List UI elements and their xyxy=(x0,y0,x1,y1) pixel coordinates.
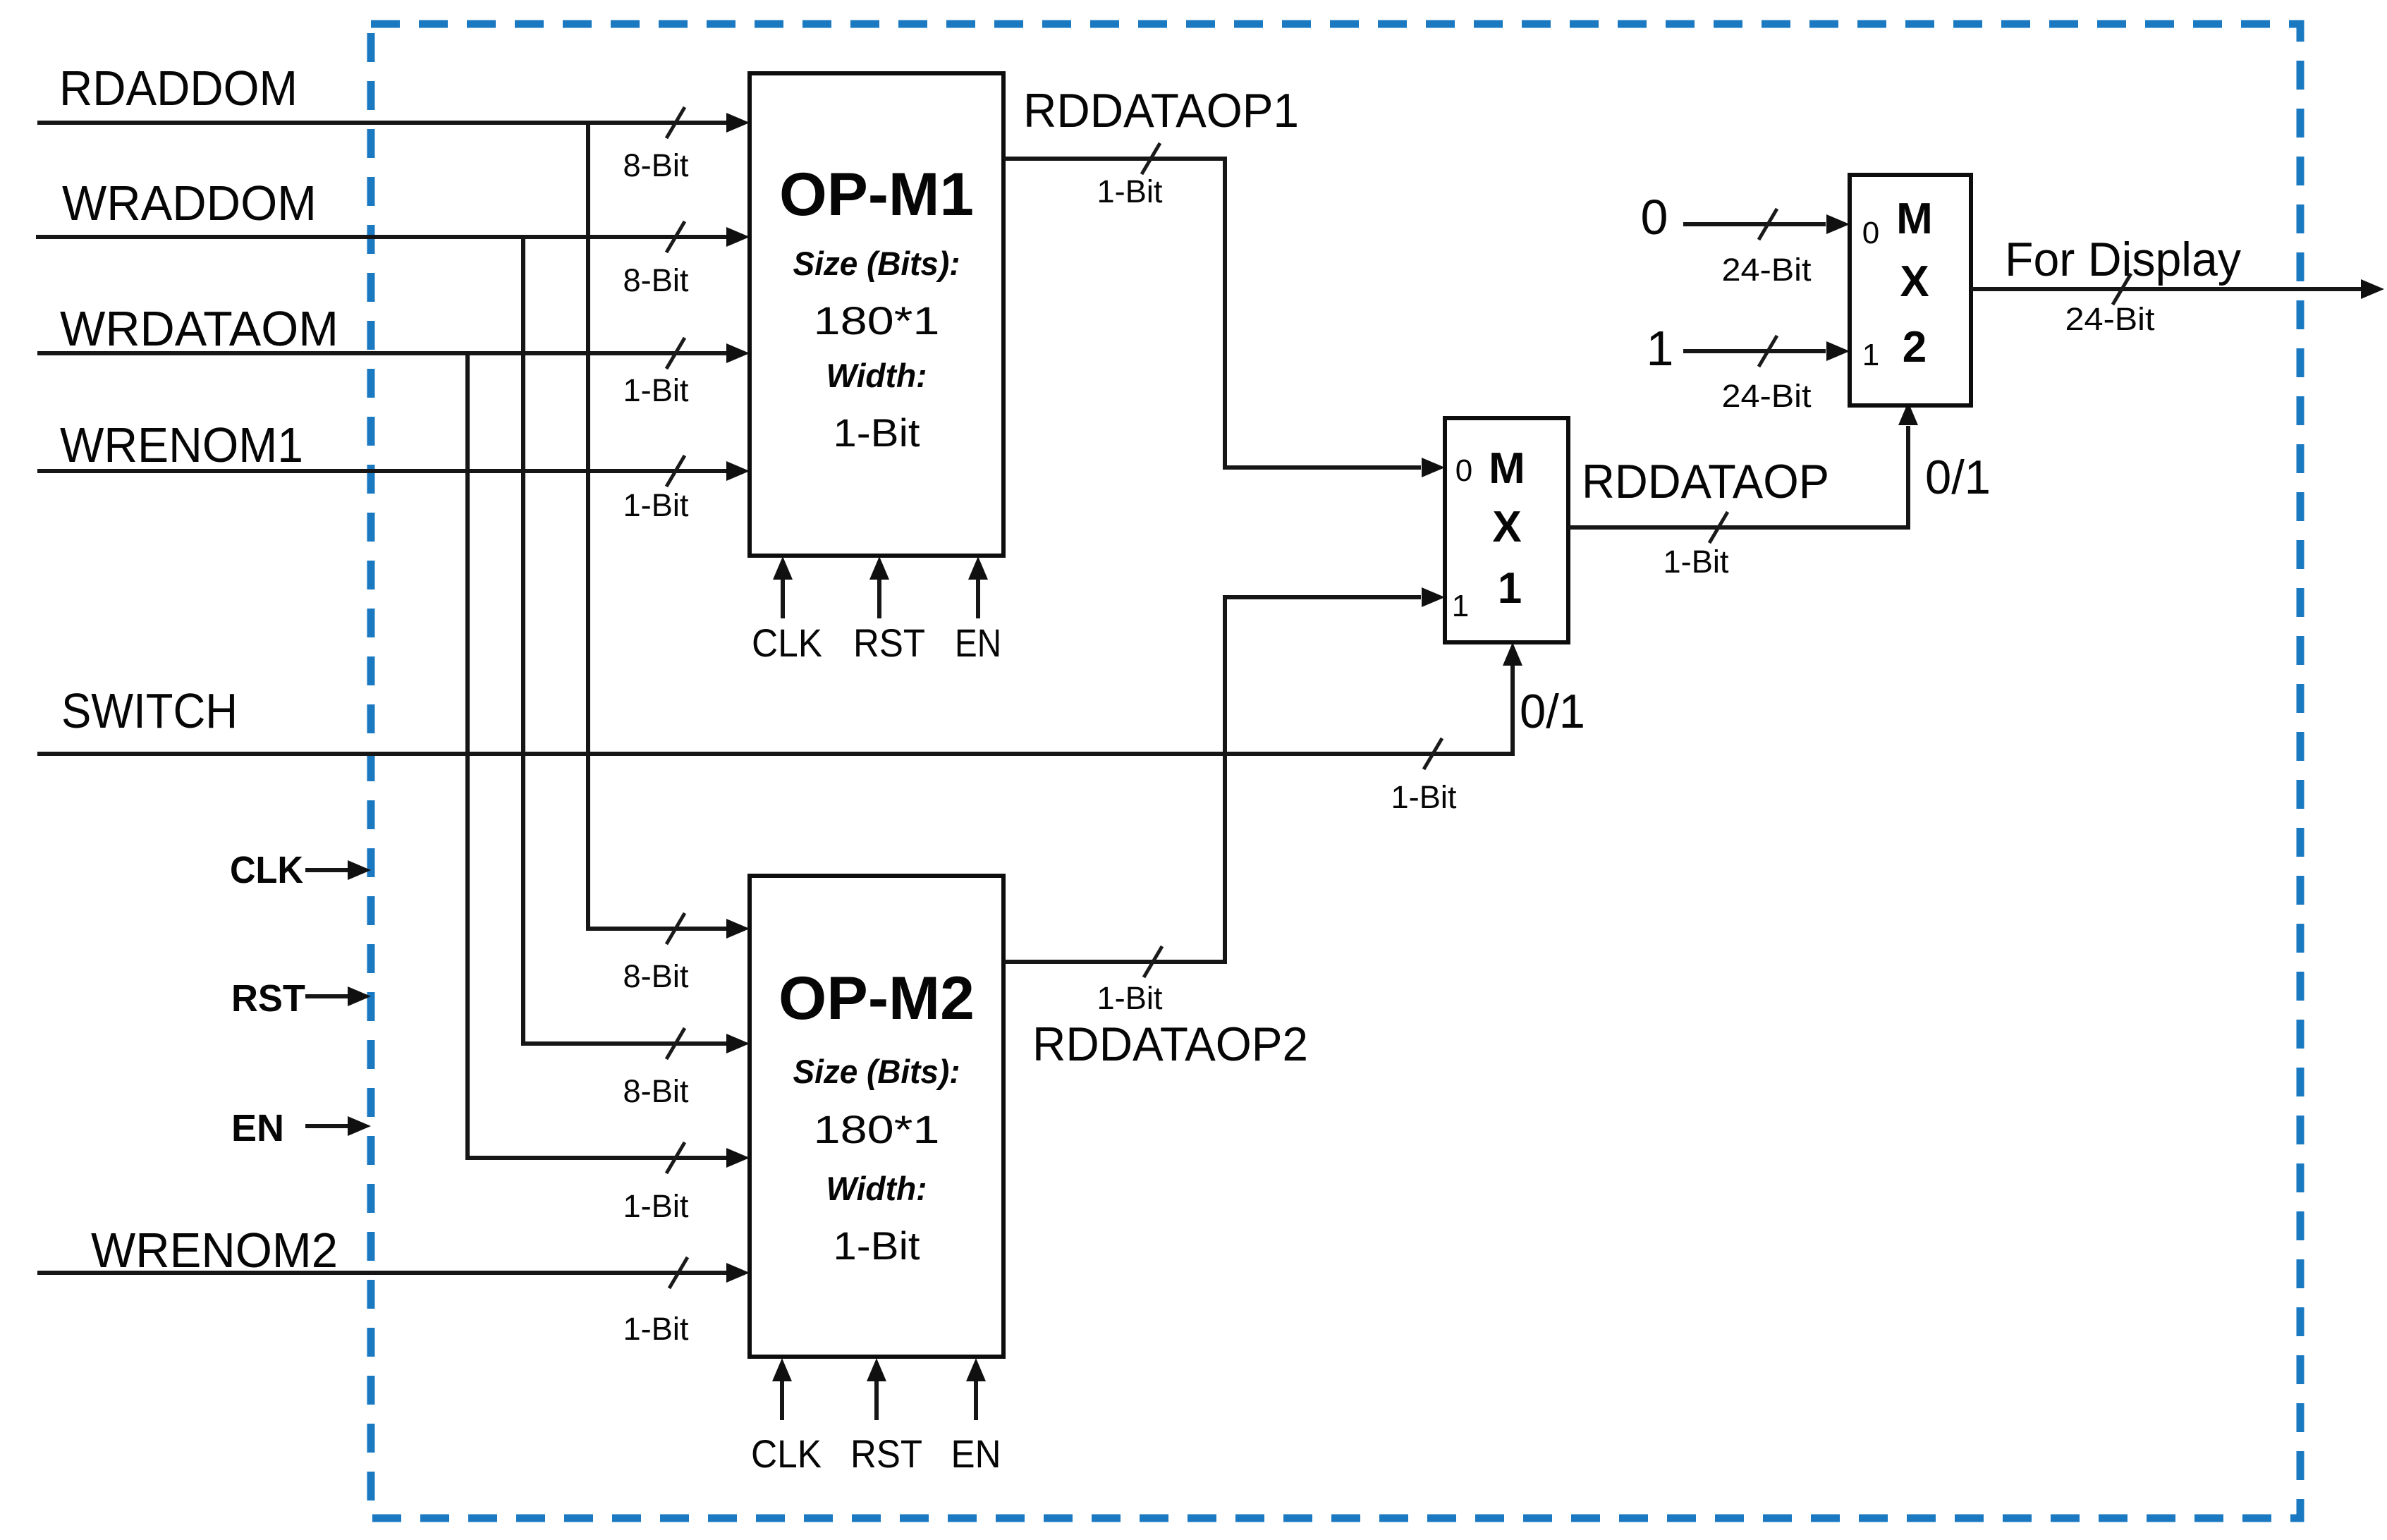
svg-text:1-Bit: 1-Bit xyxy=(1663,544,1729,580)
svg-text:WRENOM1: WRENOM1 xyxy=(60,417,303,472)
pin EN of OP-M2 xyxy=(951,1358,1001,1476)
svg-text:M: M xyxy=(1489,444,1525,493)
wire RDDATAOP1 net xyxy=(1004,143,1445,477)
wire constant 1 to MX2 xyxy=(1683,336,1850,414)
wire WRENOM1 input xyxy=(37,456,750,523)
svg-text:WRENOM2: WRENOM2 xyxy=(91,1223,338,1278)
svg-text:RDADDOM: RDADDOM xyxy=(59,61,298,116)
svg-text:Size (Bits):: Size (Bits): xyxy=(793,1053,960,1090)
wire CLK entering boundary xyxy=(305,860,371,880)
svg-text:0: 0 xyxy=(1641,190,1668,245)
svg-text:CLK: CLK xyxy=(752,621,822,665)
svg-text:RDDATAOP: RDDATAOP xyxy=(1582,455,1829,508)
svg-text:24-Bit: 24-Bit xyxy=(2065,301,2156,337)
svg-text:0/1: 0/1 xyxy=(1925,451,1991,504)
pin CLK of OP-M1 xyxy=(752,556,822,665)
svg-text:1: 1 xyxy=(1862,338,1879,372)
module boundary dashed border xyxy=(371,24,2300,1518)
svg-text:M: M xyxy=(1896,195,1933,243)
svg-text:180*1: 180*1 xyxy=(814,298,940,343)
node constant 0 input MX2 xyxy=(1641,190,1668,245)
node SWITCH label xyxy=(61,683,238,738)
svg-text:1-Bit: 1-Bit xyxy=(623,1188,689,1224)
pin RST of OP-M2 xyxy=(850,1358,922,1476)
svg-text:WRADDOM: WRADDOM xyxy=(62,176,317,231)
pin RST of OP-M1 xyxy=(853,556,925,665)
node RDADDOM label xyxy=(59,61,298,116)
pin CLK of OP-M2 xyxy=(751,1358,822,1476)
svg-text:0: 0 xyxy=(1862,216,1879,250)
svg-text:X: X xyxy=(1900,257,1929,306)
node RDDATAOP1 label xyxy=(1023,84,1299,209)
svg-text:180*1: 180*1 xyxy=(814,1107,940,1151)
svg-text:1-Bit: 1-Bit xyxy=(834,410,920,455)
svg-text:1-Bit: 1-Bit xyxy=(1391,779,1457,815)
mux MX2 xyxy=(1850,175,1971,405)
node RDDATAOP2 label xyxy=(1032,980,1308,1071)
node WRADDOM label xyxy=(62,176,317,231)
wire For Display output xyxy=(1971,274,2384,337)
node RST external label xyxy=(231,977,305,1020)
svg-text:1-Bit: 1-Bit xyxy=(623,487,689,523)
wire constant 0 to MX2 xyxy=(1683,209,1850,288)
node 0/1 select label MX1 xyxy=(1520,685,1585,738)
svg-text:1-Bit: 1-Bit xyxy=(1097,173,1163,209)
svg-text:1: 1 xyxy=(1647,321,1674,376)
svg-text:RST: RST xyxy=(231,977,305,1020)
wire WRENOM2 input xyxy=(37,1257,750,1347)
svg-text:1: 1 xyxy=(1498,564,1522,613)
svg-text:2: 2 xyxy=(1903,323,1927,372)
svg-text:CLK: CLK xyxy=(230,849,303,891)
svg-text:CLK: CLK xyxy=(751,1431,822,1476)
svg-text:1-Bit: 1-Bit xyxy=(623,372,689,408)
node WRDATAOM label xyxy=(60,301,338,356)
block OP-M2 xyxy=(750,876,1003,1357)
node CLK external label xyxy=(230,849,303,891)
wire branch RDADDOM to OP-M2 xyxy=(588,121,750,994)
svg-text:8-Bit: 8-Bit xyxy=(623,147,689,183)
svg-text:0/1: 0/1 xyxy=(1520,685,1585,738)
svg-text:EN: EN xyxy=(951,1431,1001,1476)
svg-text:OP-M2: OP-M2 xyxy=(779,965,975,1032)
svg-text:Width:: Width: xyxy=(826,1170,927,1207)
svg-text:RST: RST xyxy=(853,621,925,665)
svg-text:8-Bit: 8-Bit xyxy=(623,1073,689,1109)
wire RDDATAOP net MX1 to MX2 select xyxy=(1568,402,1918,580)
wire SWITCH net to MX1 select xyxy=(37,642,1522,815)
svg-text:1-Bit: 1-Bit xyxy=(834,1223,920,1268)
svg-text:1-Bit: 1-Bit xyxy=(623,1311,689,1347)
wire RST entering boundary xyxy=(305,986,371,1006)
node WRENOM1 label xyxy=(60,417,303,472)
svg-text:1: 1 xyxy=(1452,589,1469,623)
wire WRDATAOM input xyxy=(37,338,750,408)
svg-text:24-Bit: 24-Bit xyxy=(1722,378,1812,414)
svg-text:1-Bit: 1-Bit xyxy=(1097,980,1163,1016)
svg-text:OP-M1: OP-M1 xyxy=(779,161,974,228)
wire EN entering boundary xyxy=(305,1116,371,1136)
svg-text:For Display: For Display xyxy=(2005,233,2241,286)
svg-text:Size (Bits):: Size (Bits): xyxy=(793,245,960,282)
svg-text:EN: EN xyxy=(231,1107,284,1149)
node EN external label xyxy=(231,1107,284,1149)
svg-text:WRDATAOM: WRDATAOM xyxy=(60,301,338,356)
wire WRADDOM input xyxy=(36,221,750,298)
node For Display label xyxy=(2005,233,2241,286)
wire branch WRDATAOM to OP-M2 xyxy=(468,351,750,1224)
pin EN of OP-M1 xyxy=(955,556,1001,665)
svg-text:Width:: Width: xyxy=(826,357,927,394)
svg-text:X: X xyxy=(1492,503,1521,551)
wire RDADDOM input xyxy=(37,107,750,183)
node constant 1 input MX2 xyxy=(1647,321,1674,376)
block OP-M1 xyxy=(750,73,1003,556)
svg-text:0: 0 xyxy=(1455,453,1472,488)
svg-text:24-Bit: 24-Bit xyxy=(1722,252,1812,288)
svg-text:8-Bit: 8-Bit xyxy=(623,262,689,298)
node WRENOM2 label xyxy=(91,1223,338,1278)
svg-text:RST: RST xyxy=(850,1431,922,1476)
svg-text:SWITCH: SWITCH xyxy=(61,683,238,738)
wire RDDATAOP2 net xyxy=(1004,587,1445,977)
mux MX1 xyxy=(1445,418,1568,642)
node 0/1 select label MX2 xyxy=(1925,451,1991,504)
svg-text:RDDATAOP1: RDDATAOP1 xyxy=(1023,84,1299,137)
svg-text:RDDATAOP2: RDDATAOP2 xyxy=(1032,1018,1308,1071)
svg-text:EN: EN xyxy=(955,621,1001,665)
node RDDATAOP label xyxy=(1582,455,1829,508)
svg-text:8-Bit: 8-Bit xyxy=(623,958,689,994)
wire branch WRADDOM to OP-M2 xyxy=(523,235,750,1109)
